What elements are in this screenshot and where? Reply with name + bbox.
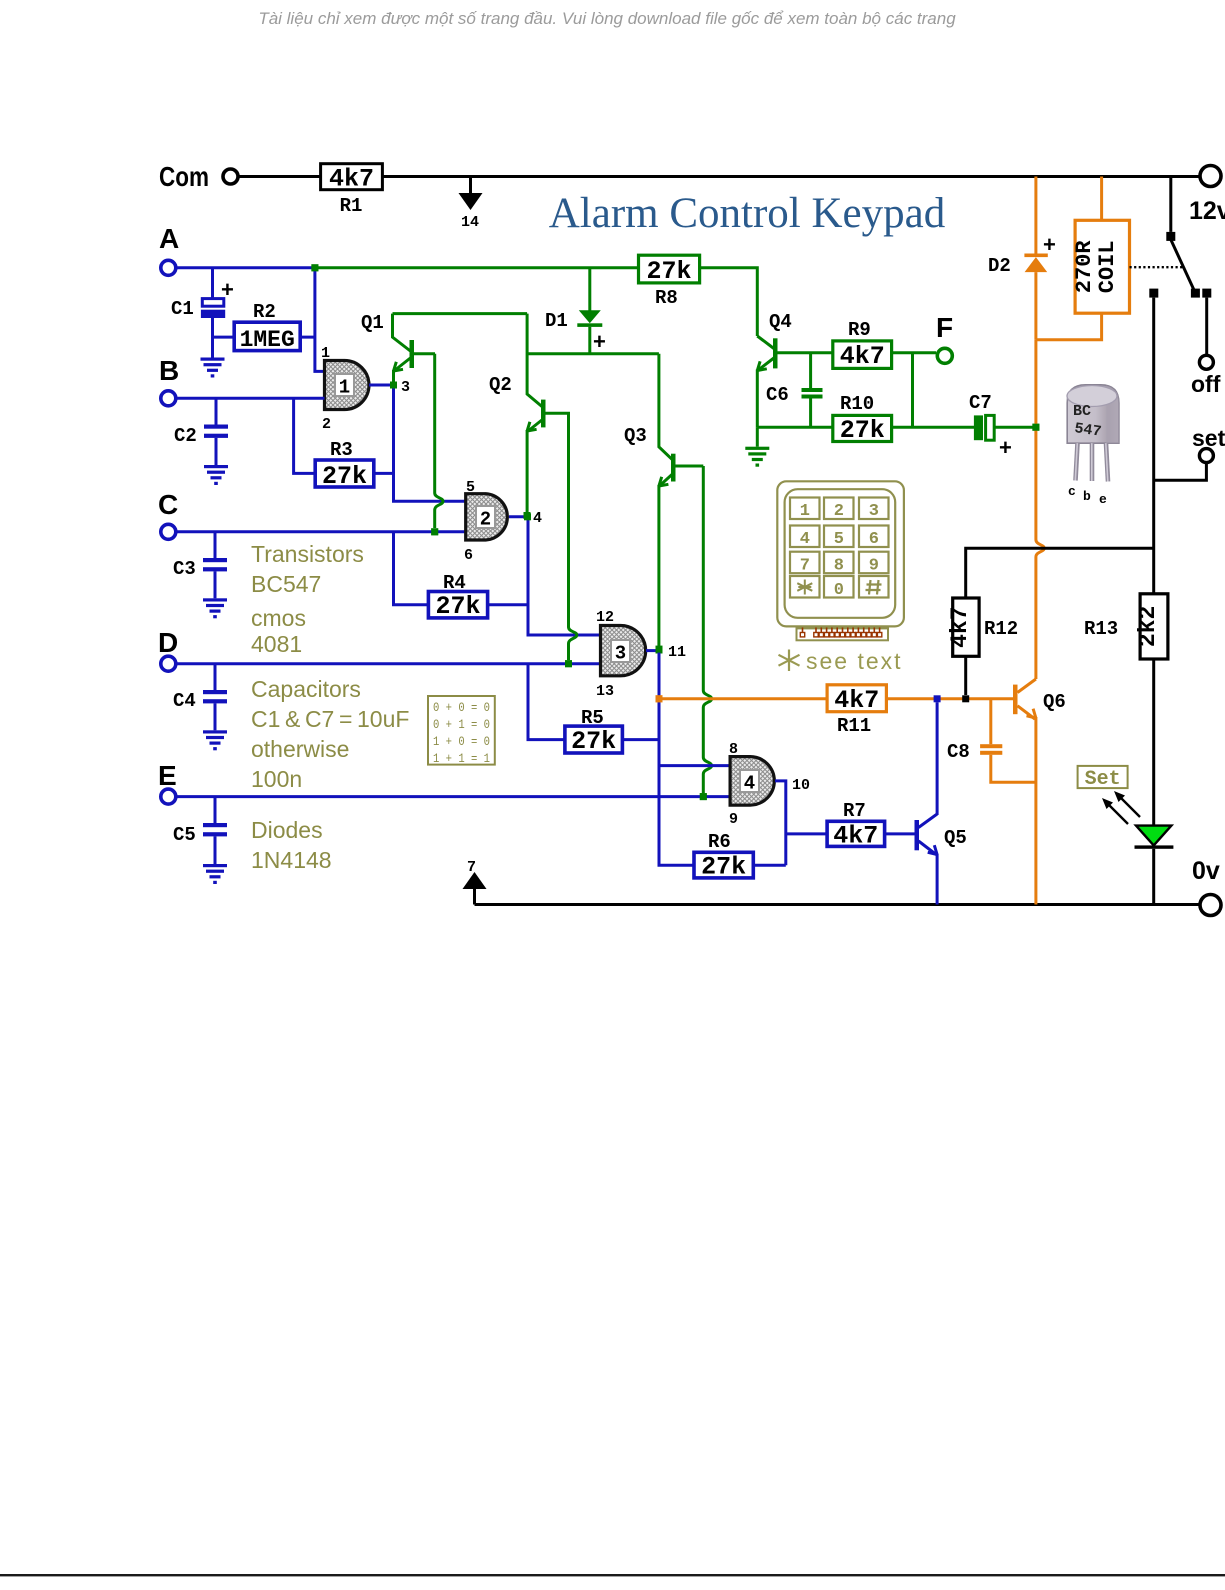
svg-text:0v: 0v	[1192, 857, 1220, 885]
svg-text:F: F	[936, 312, 953, 343]
svg-text:R10: R10	[840, 393, 874, 415]
svg-text:1MEG: 1MEG	[240, 327, 295, 353]
svg-text:Q2: Q2	[489, 374, 512, 396]
LED (green)	[1135, 826, 1174, 905]
terminal 12v	[1200, 166, 1221, 187]
terminal D	[161, 656, 176, 671]
svg-text:Q4: Q4	[769, 311, 792, 333]
wire R12 bottom to Q6 base rail	[964, 656, 967, 695]
ground below C4	[203, 730, 227, 750]
svg-text:12v: 12v	[1189, 197, 1225, 225]
resistor R12 4k7 (vertical)	[947, 598, 1018, 656]
svg-text:1 + 0 = 0: 1 + 0 = 0	[433, 734, 490, 749]
wire B row	[176, 397, 325, 400]
wire R8 to Q4 collector	[700, 268, 758, 336]
wire R11 to Q6 base	[886, 697, 1014, 700]
svg-text:R9: R9	[848, 319, 871, 341]
svg-text:C6: C6	[766, 384, 789, 406]
wire R12 top rail	[966, 548, 1154, 598]
capacitor C5 100n	[173, 797, 227, 864]
pin 7 ground arrow	[463, 859, 487, 905]
svg-text:C: C	[158, 489, 178, 520]
svg-text:R12: R12	[984, 618, 1018, 640]
gate 3 body	[601, 626, 646, 676]
resistor R9 4k7	[833, 319, 892, 371]
svg-text:4081: 4081	[251, 631, 302, 657]
node A junction dot	[311, 264, 318, 271]
svg-text:4: 4	[533, 510, 542, 527]
svg-text:+: +	[593, 329, 606, 354]
terminal Com	[223, 169, 238, 184]
svg-text:cmos: cmos	[251, 605, 306, 631]
svg-text:C1: C1	[171, 298, 194, 320]
ground below C2	[204, 465, 228, 485]
transistor Q1	[361, 312, 435, 382]
resistor R8 27k	[639, 255, 700, 309]
svg-text:1N4148: 1N4148	[251, 847, 332, 873]
wire R1 to 12v terminal	[382, 175, 1200, 178]
svg-text:Tài liệu chỉ xem được một số t: Tài liệu chỉ xem được một số trang đầu. …	[258, 9, 956, 28]
terminal A	[161, 260, 176, 275]
svg-text:R6: R6	[708, 831, 731, 853]
wire set terminal to switched rail	[1154, 463, 1207, 481]
capacitor C2 100n	[174, 398, 228, 465]
wire Q2 collector junction to D1 rail	[527, 352, 659, 355]
svg-text:270R: 270R	[1072, 240, 1097, 294]
svg-text:3: 3	[401, 379, 410, 396]
transistor Q2	[489, 314, 570, 512]
svg-text:e: e	[1099, 492, 1107, 507]
wire A row (green) to R8	[315, 266, 639, 269]
svg-text:10: 10	[792, 777, 810, 794]
node 3 junction dot	[390, 382, 397, 389]
svg-text:A: A	[159, 223, 179, 254]
node C-row/Q1 base junction dot	[431, 528, 438, 535]
relay contact square (pole)	[1166, 232, 1175, 241]
svg-text:5: 5	[834, 530, 844, 549]
resistor R3 27k	[294, 398, 394, 491]
diode D2	[988, 232, 1056, 340]
wire to off terminal	[1205, 298, 1208, 356]
svg-text:27k: 27k	[322, 462, 367, 491]
svg-text:14: 14	[461, 214, 479, 231]
bottom page rule	[0, 1574, 1225, 1576]
ground below C5	[203, 864, 227, 884]
resistor R4 27k	[394, 532, 529, 621]
relay contact square (left throw)	[1149, 289, 1158, 298]
gate 2 body	[466, 494, 508, 540]
svg-text:+: +	[1043, 232, 1056, 257]
svg-text:BC547: BC547	[251, 571, 321, 597]
wire Q3 base down to row E (jogs over R11 and pin8 wires)	[703, 466, 711, 793]
wire D row	[176, 662, 601, 665]
svg-text:3: 3	[869, 502, 879, 521]
svg-text:Q6: Q6	[1043, 691, 1066, 713]
svg-text:D2: D2	[988, 255, 1011, 277]
svg-text:27k: 27k	[646, 257, 691, 286]
svg-text:R13: R13	[1084, 618, 1118, 640]
svg-text:0 + 1 = 0: 0 + 1 = 0	[433, 717, 490, 732]
svg-text:27k: 27k	[840, 416, 885, 445]
truth table box	[428, 696, 495, 766]
terminal off	[1199, 355, 1213, 369]
terminal B	[161, 391, 176, 406]
svg-text:7: 7	[800, 557, 810, 576]
svg-text:R1: R1	[340, 195, 363, 217]
wire orange main vertical from 12v rail	[1034, 177, 1037, 254]
terminal F	[937, 348, 952, 363]
gate 4 body	[730, 757, 774, 806]
resistor R1 box	[321, 164, 383, 194]
svg-text:0: 0	[834, 581, 844, 600]
wire pin8 branch	[659, 764, 730, 767]
wire E row	[176, 795, 730, 798]
wire node4 down to pin12	[528, 517, 602, 635]
wire A row (blue)	[176, 266, 315, 269]
svg-text:3: 3	[615, 643, 626, 665]
wire Com to R1	[239, 175, 321, 178]
svg-text:R4: R4	[443, 572, 466, 594]
svg-text:2k2: 2k2	[1135, 606, 1161, 647]
wire Q1 collector rail	[393, 312, 528, 315]
svg-text:13: 13	[596, 683, 614, 700]
node 4 junction dot	[524, 512, 531, 519]
node 4 junction dot	[524, 513, 531, 520]
svg-text:Q5: Q5	[944, 827, 967, 849]
wire R13 down to LED	[1152, 659, 1155, 826]
svg-text:Q1: Q1	[361, 312, 384, 334]
transistor Q5	[915, 702, 967, 904]
wire node11 down to R6 (passes R11 takeoff, pin8 takeoff)	[659, 651, 694, 866]
svg-text:1: 1	[800, 502, 810, 521]
svg-text:R2: R2	[253, 301, 276, 323]
svg-text:off: off	[1191, 371, 1221, 397]
node row E junction dot	[700, 793, 707, 800]
terminal C	[161, 524, 176, 539]
svg-text:2: 2	[322, 416, 331, 433]
svg-text:C5: C5	[173, 824, 196, 846]
wire gate4 output down to R6	[775, 781, 786, 865]
node C7/orange junction dot	[1032, 424, 1039, 431]
svg-text:100n: 100n	[251, 766, 302, 792]
wire C row	[176, 530, 466, 533]
keypad hash key symbol	[866, 580, 882, 595]
keypad connector strip	[797, 628, 889, 640]
svg-text:E: E	[158, 760, 177, 791]
relay coil box 270R COIL	[1036, 177, 1130, 340]
transistor Q3	[624, 354, 703, 646]
svg-text:otherwise: otherwise	[251, 736, 349, 762]
svg-text:1: 1	[339, 377, 350, 399]
capacitor C7 (10uF polarized)	[913, 392, 1036, 460]
svg-text:Transistors: Transistors	[251, 541, 364, 567]
svg-text:C3: C3	[173, 558, 196, 580]
svg-text:2: 2	[834, 502, 844, 521]
wire R10 right up to F rail	[892, 353, 913, 428]
wire switched rail down to R13	[1152, 298, 1155, 594]
keypad star key symbol	[797, 580, 812, 595]
svg-text:4: 4	[744, 773, 755, 795]
svg-text:11: 11	[668, 644, 686, 661]
wire gate2 output to node 4	[509, 515, 527, 518]
svg-text:Alarm Control Keypad: Alarm Control Keypad	[549, 190, 945, 237]
svg-text:+: +	[999, 435, 1012, 460]
wire orange D2 down to C7 node, then jog over black R12 wire, down to Q6	[1036, 340, 1044, 679]
relay contact squares (throw pair)	[1191, 289, 1200, 298]
ground below C1	[201, 358, 225, 378]
Set indicator label box	[1078, 766, 1128, 791]
node 11 junction dot	[656, 646, 663, 653]
wire R11 row left (jog over Q3 base line)	[659, 697, 827, 700]
node 3 junction dot	[390, 382, 397, 389]
node R11 left junction dot (orange)	[656, 695, 663, 702]
relay switch: pole from 12v rail	[1169, 177, 1172, 232]
transistor Q4	[757, 311, 792, 427]
svg-text:set: set	[1192, 425, 1225, 451]
svg-text:4: 4	[800, 530, 810, 549]
wire Q2 base down to row D (with jog over pin12 wire)	[569, 413, 577, 660]
junction dots overlay	[311, 264, 1039, 800]
resistor R6 27k	[694, 831, 786, 882]
node Q5 collector junction dot (blue)	[934, 695, 941, 702]
svg-text:R3: R3	[330, 439, 353, 461]
resistor R11 4k7	[827, 685, 886, 737]
svg-text:Diodes: Diodes	[251, 817, 323, 843]
diode D1 1N4148	[545, 268, 606, 354]
svg-text:D1: D1	[545, 310, 568, 332]
resistor R5 27k	[528, 664, 659, 756]
svg-text:1 + 1 = 1: 1 + 1 = 1	[433, 751, 490, 766]
svg-text:2: 2	[480, 509, 491, 531]
node R11 left junction dot	[656, 695, 663, 702]
svg-text:Com: Com	[159, 161, 209, 192]
node A junction dot	[311, 264, 318, 271]
svg-text:4k7: 4k7	[833, 822, 878, 851]
svg-text:+: +	[221, 277, 234, 302]
ground below Q4 emitter	[756, 427, 759, 447]
svg-text:6: 6	[869, 530, 879, 549]
svg-text:12: 12	[596, 609, 614, 626]
svg-text:4k7: 4k7	[834, 686, 879, 715]
svg-text:c: c	[1068, 484, 1076, 499]
wire pin1 from A junction	[315, 268, 325, 372]
svg-text:C2: C2	[174, 425, 197, 447]
node row D junction dot	[565, 660, 572, 667]
wire R9 to F terminal	[892, 351, 936, 354]
node 11 junction dot	[656, 647, 663, 654]
svg-text:R11: R11	[837, 715, 871, 737]
svg-text:6: 6	[464, 547, 473, 564]
svg-text:0 + 0 = 0: 0 + 0 = 0	[433, 700, 490, 715]
svg-text:4k7: 4k7	[840, 342, 885, 371]
svg-text:9: 9	[869, 557, 879, 576]
wire gate1 output to node 3	[369, 384, 394, 387]
node row C junction dot	[431, 528, 438, 535]
node C7/orange junction dot	[1032, 424, 1039, 431]
svg-text:27k: 27k	[435, 592, 480, 621]
svg-text:4k7: 4k7	[329, 165, 374, 194]
wire node3 down to pin5	[394, 385, 466, 501]
wire 0v rail	[475, 903, 1201, 906]
svg-text:Capacitors: Capacitors	[251, 676, 361, 702]
resistor R7 4k7	[786, 800, 915, 851]
see text note with star	[779, 650, 800, 672]
node R12/base junction dot (black)	[962, 695, 969, 702]
capacitor C6	[766, 353, 823, 428]
svg-text:R7: R7	[843, 800, 866, 822]
svg-text:9: 9	[729, 811, 738, 828]
capacitor C4 100n	[173, 664, 227, 731]
wire Q1 base down to row C (with jog over pin5 wire)	[435, 354, 443, 528]
relay actuation dotted line	[1130, 266, 1184, 268]
svg-text:4k7: 4k7	[947, 606, 973, 647]
capacitor C1 (10uF polarized)	[171, 268, 234, 358]
pin 14 arrow (supply pin of 4081)	[459, 178, 483, 231]
gate 1 body	[325, 361, 369, 410]
relay switch arm	[1171, 240, 1194, 290]
svg-text:7: 7	[467, 859, 476, 876]
svg-text:C4: C4	[173, 690, 196, 712]
svg-text:Q3: Q3	[624, 425, 647, 447]
wire Q4 base to R9	[778, 351, 833, 354]
transistor Q6	[1013, 679, 1066, 905]
svg-text:B: B	[159, 355, 179, 386]
svg-text:R8: R8	[655, 287, 678, 309]
svg-text:R5: R5	[581, 707, 604, 729]
resistor R10 27k	[833, 393, 892, 445]
node E-row/Q3 base junction dot	[700, 793, 707, 800]
svg-text:27k: 27k	[571, 727, 616, 756]
resistor R2 1MEG	[213, 301, 315, 353]
ground below C3	[203, 598, 227, 618]
keypad connector pins	[803, 628, 880, 633]
svg-text:8: 8	[834, 557, 844, 576]
svg-text:C1 & C7 = 10uF: C1 & C7 = 10uF	[251, 706, 409, 732]
svg-text:C8: C8	[947, 741, 970, 763]
svg-text:27k: 27k	[701, 853, 746, 882]
node D-row/Q2 base junction dot	[565, 660, 572, 667]
terminal 0v	[1200, 895, 1221, 916]
svg-text:COIL: COIL	[1095, 240, 1120, 293]
LED light arrows	[1106, 795, 1140, 824]
svg-text:D: D	[158, 627, 178, 658]
svg-text:Set: Set	[1085, 768, 1121, 791]
svg-text:C7: C7	[969, 392, 992, 414]
svg-text:see text: see text	[806, 648, 903, 674]
keypad key digits	[800, 502, 879, 600]
capacitor C3 100n	[173, 532, 227, 599]
resistor R13 2k2 (vertical)	[1084, 594, 1168, 659]
svg-text:BC: BC	[1073, 403, 1091, 420]
terminal set	[1199, 449, 1213, 463]
terminal E	[161, 789, 176, 804]
wire Q4 emitter rail to R10	[757, 426, 833, 429]
capacitor C8	[947, 699, 1036, 782]
wire gate3 output to node 11	[646, 649, 659, 652]
svg-text:b: b	[1083, 489, 1091, 504]
